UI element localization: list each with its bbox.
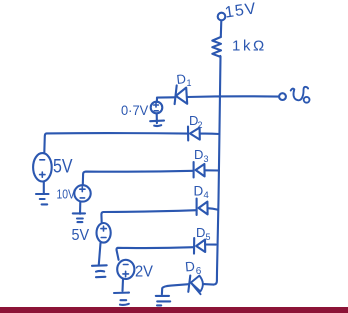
diode D5 xyxy=(194,238,205,254)
source V4 5V xyxy=(97,223,111,243)
resistor R1 1kΩ xyxy=(212,37,221,57)
terminal +15V xyxy=(218,13,226,21)
svg-text:D: D xyxy=(194,147,203,162)
svg-text:4: 4 xyxy=(204,190,209,201)
footer bar xyxy=(0,307,348,313)
label D1 xyxy=(176,71,192,88)
source V1 0.7V xyxy=(151,102,163,114)
wire D5 to bus xyxy=(205,243,216,245)
wire D3 to bus xyxy=(205,169,219,171)
svg-text:D: D xyxy=(184,259,195,275)
wire D6 to bus xyxy=(204,283,214,286)
svg-text:D: D xyxy=(196,225,205,240)
ground xyxy=(114,279,129,305)
label 0.7V xyxy=(121,103,148,119)
label 15V xyxy=(224,0,258,21)
label 10V xyxy=(57,189,76,202)
diode D4 xyxy=(197,199,208,216)
svg-text:5V: 5V xyxy=(53,155,73,177)
label 5V xyxy=(53,155,73,177)
label D5 xyxy=(196,225,211,242)
svg-text:1: 1 xyxy=(187,78,192,88)
source V5 2V xyxy=(117,260,134,279)
wire D2 to source xyxy=(44,133,188,153)
svg-text:15V: 15V xyxy=(224,0,258,21)
diode D2 xyxy=(188,127,200,141)
label D2 xyxy=(189,113,203,130)
label 1kΩ xyxy=(232,38,267,55)
label Vo xyxy=(291,87,310,103)
svg-text:1kΩ: 1kΩ xyxy=(232,38,267,55)
wire bus xyxy=(213,57,220,285)
ground xyxy=(73,202,85,222)
wire D2 to bus xyxy=(200,133,219,136)
wire D4 to bus xyxy=(208,208,218,209)
ground xyxy=(156,296,170,306)
ground xyxy=(36,182,49,205)
label D4 xyxy=(194,184,209,202)
svg-text:D: D xyxy=(176,71,187,87)
label 5V xyxy=(72,226,90,244)
svg-text:5: 5 xyxy=(206,232,211,242)
diode D1 xyxy=(175,85,188,104)
wire D6 to ground xyxy=(162,284,189,294)
diode D3 xyxy=(194,162,205,178)
diode D6 xyxy=(188,276,203,295)
terminal Vo xyxy=(279,93,286,100)
wire D5 to source xyxy=(117,247,194,260)
ground xyxy=(92,243,107,277)
wire D3 to source xyxy=(83,171,194,185)
svg-text:5V: 5V xyxy=(72,226,90,244)
wire xyxy=(220,21,223,38)
source V3 10V xyxy=(74,185,90,201)
label D3 xyxy=(194,147,209,164)
svg-text:2V: 2V xyxy=(135,263,154,281)
label 2V xyxy=(135,263,154,281)
ground xyxy=(150,114,164,127)
svg-text:3: 3 xyxy=(204,154,209,164)
wire D4 to source xyxy=(101,210,196,223)
svg-text:10V: 10V xyxy=(57,189,76,202)
wire node to Vo xyxy=(157,96,279,101)
svg-text:0·7V: 0·7V xyxy=(121,103,148,119)
label D6 xyxy=(184,259,201,277)
svg-text:D: D xyxy=(194,184,204,199)
source V2 5V xyxy=(33,153,52,181)
